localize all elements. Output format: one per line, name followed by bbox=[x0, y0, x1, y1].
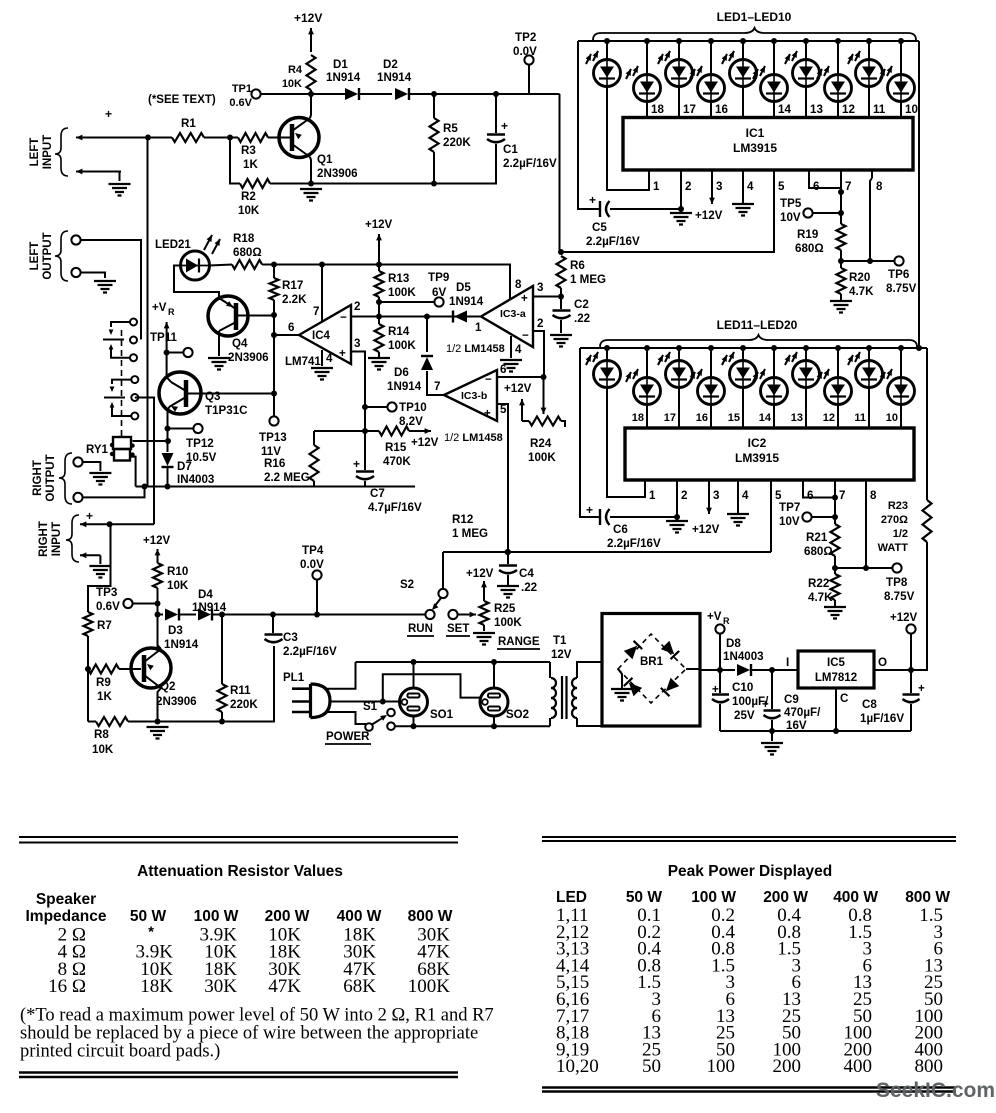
svg-text:7: 7 bbox=[845, 180, 851, 193]
svg-text:BR1: BR1 bbox=[640, 656, 664, 668]
led column 1 bbox=[606, 348, 608, 361]
IC2 pin 3 stub bbox=[708, 480, 710, 488]
svg-text:C1: C1 bbox=[503, 143, 518, 156]
svg-text:18K: 18K bbox=[140, 976, 173, 997]
table 2 top double rule bbox=[542, 837, 956, 841]
svg-text:R5: R5 bbox=[443, 122, 458, 135]
svg-text:16 Ω: 16 Ω bbox=[48, 976, 86, 997]
svg-text:50: 50 bbox=[642, 1056, 661, 1077]
wire IC1 pin7 column bbox=[840, 178, 842, 224]
svg-text:R4: R4 bbox=[288, 64, 303, 76]
svg-text:3: 3 bbox=[354, 337, 361, 350]
bottom ground line of supply bbox=[720, 730, 911, 732]
wire BR1 output bbox=[686, 669, 735, 670]
wire IC1 pin4 ground bbox=[742, 178, 744, 203]
wire TP11 to +VR line bbox=[167, 352, 184, 354]
wire +VR line to Q3 collector bbox=[167, 353, 171, 383]
svg-text:C3: C3 bbox=[283, 631, 298, 644]
wire R11 bottom bbox=[221, 712, 223, 722]
svg-text:Peak Power Displayed: Peak Power Displayed bbox=[668, 863, 833, 880]
svg-text:10V: 10V bbox=[780, 211, 801, 224]
svg-text:8.75V: 8.75V bbox=[884, 590, 915, 603]
relay contact circle 5 (common) bbox=[131, 394, 138, 401]
relay contact arrow up 2 bbox=[111, 407, 113, 409]
svg-text:1/2 LM1458: 1/2 LM1458 bbox=[446, 343, 505, 355]
wire IC3-b pin6 bbox=[497, 376, 544, 378]
svg-text:R20: R20 bbox=[849, 271, 870, 284]
wire D1-D2 bbox=[359, 93, 392, 95]
svg-text:OUTPUT: OUTPUT bbox=[42, 232, 54, 279]
svg-text:+: + bbox=[484, 407, 491, 420]
svg-text:18: 18 bbox=[651, 103, 664, 116]
svg-text:+: + bbox=[501, 119, 508, 133]
wire left output lower to ground bbox=[80, 273, 105, 279]
test point TP6 bbox=[894, 256, 903, 265]
wire plug bottom to S1 bbox=[327, 712, 366, 724]
svg-text:R23: R23 bbox=[888, 500, 908, 512]
svg-text:TP10: TP10 bbox=[399, 401, 427, 414]
left output terminal lower bbox=[71, 268, 80, 277]
switch S2 bbox=[442, 552, 444, 589]
svg-text:1N914: 1N914 bbox=[377, 71, 412, 84]
ic IC2 LM3915 box bbox=[625, 428, 914, 480]
svg-text:(*To read a maximum power leve: (*To read a maximum power level of 50 W … bbox=[20, 1006, 494, 1026]
wire C5 to pin2 ground bbox=[610, 208, 681, 210]
resistor R6 1 MEG bbox=[560, 94, 562, 252]
svg-text:3: 3 bbox=[537, 281, 544, 294]
diode D3 1N914 bbox=[158, 614, 164, 616]
resistor R8 10K bbox=[96, 717, 128, 726]
svg-text:800 W: 800 W bbox=[905, 889, 950, 906]
resistor R15 470K with +12V arrow bbox=[379, 427, 409, 436]
wire R8 to C3 bottom bbox=[128, 646, 274, 722]
svg-text:200 W: 200 W bbox=[265, 908, 310, 925]
svg-text:2: 2 bbox=[685, 180, 691, 193]
svg-text:220K: 220K bbox=[443, 136, 471, 149]
wire plug-mid branch to SO2 feed bbox=[383, 674, 480, 701]
svg-text:2: 2 bbox=[354, 300, 360, 313]
svg-text:4: 4 bbox=[326, 352, 333, 365]
svg-text:25V: 25V bbox=[734, 709, 755, 722]
wire Q3 base line bbox=[186, 393, 275, 395]
svg-text:4.7µF/16V: 4.7µF/16V bbox=[368, 501, 422, 514]
ground inside BR1 bbox=[618, 669, 622, 688]
svg-text:11: 11 bbox=[873, 103, 886, 116]
svg-text:INPUT: INPUT bbox=[42, 135, 54, 170]
svg-text:10K: 10K bbox=[282, 78, 302, 90]
svg-text:RUN: RUN bbox=[408, 623, 433, 635]
left output brace bbox=[55, 231, 68, 281]
wire R17 bottom to Q4 base node bbox=[273, 300, 275, 315]
resistor R1 bbox=[172, 133, 204, 142]
svg-text:10V: 10V bbox=[779, 515, 800, 528]
svg-text:D6: D6 bbox=[394, 366, 409, 379]
test point TP12 bbox=[193, 424, 202, 433]
svg-text:680Ω: 680Ω bbox=[804, 545, 833, 558]
wire IC1 pin2 ground bbox=[680, 178, 682, 212]
svg-text:+12V: +12V bbox=[890, 612, 918, 624]
wire right output lower bbox=[82, 487, 145, 498]
transistor Q1 2N3906 bbox=[279, 118, 319, 158]
wire IC3-b pin5 node to S2 and C4 bbox=[443, 551, 771, 553]
wire +12V arrow to R13 bbox=[378, 234, 380, 265]
svg-text:1: 1 bbox=[475, 321, 482, 334]
svg-text:3: 3 bbox=[713, 489, 720, 502]
resistor R11 220K bbox=[218, 684, 227, 712]
wire R2 node down bbox=[230, 138, 240, 184]
wire IC2 pin1 to LED11 cathode bbox=[607, 388, 645, 498]
wire node to TP6 bbox=[841, 260, 895, 262]
svg-text:2.2K: 2.2K bbox=[282, 293, 307, 306]
wire IC3-a pin2 feedback bbox=[533, 331, 544, 377]
svg-text:R17: R17 bbox=[282, 279, 303, 292]
resistor R20 4.7K bbox=[837, 268, 846, 294]
svg-text:+: + bbox=[86, 509, 93, 523]
wire IC1 pin5 signal to R6 node bbox=[561, 178, 774, 252]
svg-text:400 W: 400 W bbox=[337, 908, 382, 925]
svg-text:TP7: TP7 bbox=[779, 501, 800, 514]
relay contact circle 4 bbox=[131, 376, 138, 383]
bridge BR1 dashed diamond bbox=[618, 634, 686, 703]
svg-text:TP1: TP1 bbox=[232, 83, 252, 95]
svg-text:TP11: TP11 bbox=[150, 332, 177, 344]
svg-text:+12V: +12V bbox=[692, 523, 720, 536]
svg-text:13: 13 bbox=[810, 103, 823, 116]
svg-text:+: + bbox=[589, 193, 596, 207]
svg-text:1K: 1K bbox=[97, 690, 112, 703]
svg-text:1N914: 1N914 bbox=[164, 638, 199, 651]
IC2 pin 6 stub bbox=[802, 480, 804, 488]
svg-text:14: 14 bbox=[778, 103, 791, 116]
svg-text:6: 6 bbox=[807, 489, 814, 502]
svg-text:D7: D7 bbox=[177, 460, 192, 473]
test point TP3 bbox=[123, 599, 132, 608]
T1 core bbox=[562, 676, 567, 719]
svg-text:+12V: +12V bbox=[695, 209, 723, 222]
svg-text:TP2: TP2 bbox=[515, 31, 536, 44]
svg-text:15: 15 bbox=[728, 412, 740, 424]
relay contact circle 6 bbox=[131, 413, 138, 420]
svg-text:C6: C6 bbox=[613, 523, 628, 536]
wire R23 down to +12V line bbox=[915, 542, 927, 670]
svg-text:100K: 100K bbox=[388, 339, 416, 352]
svg-text:Speaker: Speaker bbox=[36, 891, 96, 908]
svg-text:10K: 10K bbox=[167, 579, 189, 592]
wire main node line to IC3-a pin8 bbox=[274, 265, 510, 300]
capacitor C5 2.2uF/16V bbox=[578, 41, 599, 209]
svg-text:6: 6 bbox=[288, 321, 295, 334]
wire plug middle to SO1 bbox=[330, 701, 400, 703]
svg-text:1/2 LM1458: 1/2 LM1458 bbox=[444, 432, 503, 444]
table 1 bottom double rule bbox=[19, 1073, 458, 1078]
svg-text:400 W: 400 W bbox=[833, 889, 878, 906]
svg-text:R6: R6 bbox=[570, 259, 585, 272]
diode D2 1N914 bbox=[395, 88, 408, 100]
svg-text:Attenuation Resistor Values: Attenuation Resistor Values bbox=[137, 863, 343, 880]
wire TP1 to Q1 collector node bbox=[260, 93, 345, 95]
svg-text:1 MEG: 1 MEG bbox=[570, 273, 606, 286]
svg-text:PL1: PL1 bbox=[283, 672, 305, 684]
wire R9 to Q2 base bbox=[119, 668, 141, 670]
wire Q4 base to node bbox=[236, 315, 274, 317]
svg-text:+: + bbox=[918, 682, 925, 695]
table 1 top double rule bbox=[19, 837, 458, 843]
wire R5 bottom bbox=[433, 152, 435, 184]
capacitor C10 100uF/25V bbox=[719, 670, 721, 693]
wire T1 primary bottom bbox=[549, 718, 551, 726]
wire IC5 common pin bbox=[835, 688, 837, 731]
svg-text:Impedance: Impedance bbox=[26, 908, 107, 925]
wire to C1 bottom bbox=[434, 144, 496, 184]
svg-text:1/2: 1/2 bbox=[893, 528, 908, 540]
socket SO2 bbox=[480, 688, 508, 716]
svg-text:2N3906: 2N3906 bbox=[228, 351, 269, 364]
wire left input long vertical bbox=[147, 138, 149, 487]
svg-text:TP12: TP12 bbox=[186, 437, 214, 450]
wire AC top to T1 primary bbox=[549, 662, 551, 678]
capacitor C6 2.2uF/16V bbox=[580, 348, 599, 517]
svg-text:−: − bbox=[485, 373, 492, 386]
bridge diode bottom-left bbox=[624, 678, 642, 696]
svg-text:100: 100 bbox=[707, 1056, 736, 1077]
svg-text:(*SEE TEXT): (*SEE TEXT) bbox=[148, 94, 216, 106]
svg-text:100K: 100K bbox=[494, 616, 522, 629]
svg-text:C2: C2 bbox=[574, 298, 589, 311]
svg-text:13: 13 bbox=[791, 412, 803, 424]
svg-text:100K: 100K bbox=[528, 451, 556, 464]
svg-text:1N914: 1N914 bbox=[326, 71, 361, 84]
wire LED21 to R18 bbox=[210, 265, 233, 266]
svg-text:R: R bbox=[168, 307, 175, 317]
svg-text:LEFT: LEFT bbox=[29, 138, 41, 167]
bridge BR1 box bbox=[602, 614, 700, 727]
svg-text:2.2µF/16V: 2.2µF/16V bbox=[586, 235, 640, 248]
svg-text:+12V: +12V bbox=[365, 219, 393, 231]
svg-text:C7: C7 bbox=[370, 487, 385, 500]
plug prongs bbox=[292, 689, 311, 712]
resistor R2 10K bbox=[240, 179, 270, 188]
wire R24 +12V arrow bbox=[522, 420, 529, 422]
wire R19 to R20 node bbox=[840, 250, 842, 268]
wire T1 secondary to BR1 bbox=[577, 662, 602, 678]
wire IC2 pin2 ground bbox=[676, 488, 678, 520]
relay contact circle 3 bbox=[130, 354, 137, 361]
svg-text:1: 1 bbox=[653, 180, 660, 193]
resistor R22 4.7K bbox=[831, 574, 840, 600]
wire C6 to pin2 ground bbox=[610, 516, 677, 518]
svg-text:12: 12 bbox=[823, 412, 835, 424]
svg-text:R18: R18 bbox=[233, 232, 255, 245]
wire S1 to SO bottoms bbox=[395, 725, 550, 727]
led column 6 bbox=[773, 348, 775, 378]
led column 1 bbox=[606, 41, 608, 60]
wire relay coil top to Q3 emitter line bbox=[133, 440, 169, 442]
svg-text:2N3906: 2N3906 bbox=[317, 167, 358, 180]
svg-text:T1P31C: T1P31C bbox=[205, 404, 248, 417]
svg-text:O: O bbox=[878, 656, 887, 669]
svg-text:R22: R22 bbox=[808, 577, 829, 590]
svg-text:16: 16 bbox=[715, 103, 728, 116]
svg-text:+: + bbox=[105, 107, 112, 121]
IC1 pin 3 stub bbox=[711, 170, 713, 178]
wire IC4 pin3 line bbox=[351, 352, 365, 432]
wire node to TP8 bbox=[835, 567, 893, 569]
svg-text:LED11–LED20: LED11–LED20 bbox=[717, 318, 798, 332]
wire IC4 pin6 output bbox=[274, 334, 299, 336]
wire +12V to R4 bbox=[310, 28, 312, 52]
svg-text:LM7812: LM7812 bbox=[815, 672, 857, 684]
relay coil RY1 bbox=[113, 437, 131, 449]
transistor Q3 T1P31C bbox=[159, 372, 201, 414]
svg-text:S2: S2 bbox=[400, 579, 414, 591]
bridge diode top-right bbox=[661, 641, 679, 659]
svg-text:LM741: LM741 bbox=[285, 356, 321, 368]
wire LED21 to Q4 emitter bbox=[174, 266, 219, 299]
svg-text:D4: D4 bbox=[198, 588, 213, 601]
svg-text:1N914: 1N914 bbox=[387, 380, 422, 393]
brace LED11-LED20 bbox=[600, 335, 917, 347]
svg-text:4.7K: 4.7K bbox=[849, 285, 874, 298]
svg-text:+V: +V bbox=[152, 302, 167, 314]
wire TP2 stub bbox=[528, 64, 530, 94]
led column 10 bbox=[900, 348, 902, 378]
wire R2 to Q1 ground bbox=[270, 183, 434, 185]
IC1 pin 2 stub bbox=[680, 170, 682, 178]
test point TP5 bbox=[803, 208, 812, 217]
potentiometer R24 100K bbox=[543, 377, 545, 414]
svg-text:R24: R24 bbox=[530, 437, 552, 450]
wire IC4 pin7 bbox=[321, 265, 323, 322]
svg-text:SET: SET bbox=[447, 623, 469, 635]
svg-text:+12V: +12V bbox=[504, 382, 532, 395]
ground under R20 bbox=[840, 294, 842, 300]
svg-text:IC1: IC1 bbox=[746, 126, 765, 140]
svg-text:R16: R16 bbox=[264, 457, 286, 470]
svg-text:TP6: TP6 bbox=[888, 268, 910, 281]
IC2 pin 5 stub bbox=[770, 480, 772, 488]
led column 2 bbox=[646, 348, 648, 378]
IC1 pin 8 stub bbox=[871, 170, 873, 178]
led column 2 bbox=[646, 41, 648, 75]
svg-text:TP9: TP9 bbox=[428, 271, 450, 284]
svg-text:8: 8 bbox=[870, 489, 877, 502]
wire right output upper to ground bbox=[82, 462, 100, 471]
svg-text:+: + bbox=[712, 683, 719, 696]
resistor R13 100K bbox=[378, 265, 380, 272]
svg-text:6V: 6V bbox=[432, 286, 446, 299]
svg-text:2N3906: 2N3906 bbox=[156, 695, 197, 708]
wire relay common 5 down to right input node bbox=[135, 398, 154, 525]
wire IC2 pin3 +12V arrow bbox=[708, 488, 710, 514]
svg-text:220K: 220K bbox=[230, 698, 258, 711]
relay actuation dashed link bbox=[121, 330, 123, 436]
svg-text:LED21: LED21 bbox=[155, 239, 191, 251]
svg-text:TP8: TP8 bbox=[886, 576, 908, 589]
svg-text:I: I bbox=[786, 656, 789, 669]
ground under Q2 bbox=[147, 727, 169, 739]
wire D8 to IC5 input bbox=[751, 669, 798, 671]
svg-text:LEFT: LEFT bbox=[29, 242, 41, 271]
op-amp IC4 LM741 bbox=[299, 305, 351, 364]
wire Q2 emitter up / collector down bbox=[158, 615, 162, 650]
wire SO2 stubs bbox=[493, 662, 495, 688]
wire IC2 pin6 jog bbox=[803, 488, 835, 498]
left input ground bbox=[119, 172, 121, 182]
resistor R10 10K bbox=[153, 563, 162, 588]
svg-text:IC4: IC4 bbox=[312, 330, 331, 342]
svg-text:18: 18 bbox=[632, 412, 644, 424]
svg-text:D5: D5 bbox=[456, 281, 471, 294]
svg-text:R13: R13 bbox=[388, 272, 410, 285]
svg-text:R19: R19 bbox=[797, 228, 819, 241]
svg-text:+12V: +12V bbox=[294, 11, 322, 25]
test point TP8 bbox=[892, 563, 901, 572]
right input brace bbox=[66, 515, 79, 562]
relay lever upper bbox=[103, 339, 124, 341]
svg-text:0.6V: 0.6V bbox=[229, 97, 252, 109]
led column 7 bbox=[805, 41, 807, 60]
svg-text:4: 4 bbox=[742, 489, 749, 502]
led column 6 bbox=[773, 41, 775, 75]
svg-text:10,20: 10,20 bbox=[556, 1056, 599, 1077]
led anode rail (IC2) bbox=[580, 347, 927, 349]
IC1 pin 6 stub bbox=[808, 170, 810, 178]
resistor R17 2.2K bbox=[273, 265, 275, 279]
svg-text:470µF/: 470µF/ bbox=[784, 706, 821, 719]
svg-text:2: 2 bbox=[537, 317, 543, 330]
svg-text:R15: R15 bbox=[385, 441, 407, 454]
svg-text:R21: R21 bbox=[806, 531, 828, 544]
wire R3 to Q1 base bbox=[268, 137, 291, 139]
test point TP7 bbox=[802, 512, 811, 521]
resistor R5 220K bbox=[433, 94, 435, 118]
test point TP10 bbox=[387, 402, 396, 411]
resistor R16 2.2 MEG bbox=[313, 431, 315, 445]
svg-text:D2: D2 bbox=[383, 58, 398, 71]
T1 primary coil bbox=[551, 678, 556, 718]
wire IC4 pin4 ground bbox=[321, 350, 323, 366]
wire IC2 pin7 column bbox=[834, 488, 836, 524]
wire R7 to R9 node bbox=[87, 636, 89, 722]
svg-text:OUTPUT: OUTPUT bbox=[45, 454, 57, 501]
potentiometer R25 100K bbox=[480, 601, 489, 625]
svg-text:+V: +V bbox=[707, 611, 722, 623]
led column 9 bbox=[868, 348, 870, 361]
svg-text:−: − bbox=[340, 311, 347, 324]
IC1 pin 1 stub bbox=[648, 170, 650, 178]
svg-text:T1: T1 bbox=[553, 635, 567, 647]
svg-text:1µF/16V: 1µF/16V bbox=[860, 712, 904, 725]
resistor R9 1K bbox=[88, 665, 119, 674]
wire IC1 pin8 column bbox=[870, 178, 872, 261]
svg-text:12V: 12V bbox=[551, 649, 572, 661]
svg-text:D3: D3 bbox=[168, 624, 183, 637]
wire R24 right stub bbox=[561, 421, 565, 427]
svg-text:1N914: 1N914 bbox=[449, 295, 484, 308]
wire IC1 pin6 jog to pin7 column bbox=[809, 178, 841, 188]
relay contact circle 1 bbox=[130, 319, 137, 326]
svg-text:RY1: RY1 bbox=[86, 444, 109, 456]
ground under C9 bbox=[771, 731, 773, 741]
svg-text:0.0V: 0.0V bbox=[513, 45, 537, 58]
svg-text:R9: R9 bbox=[96, 676, 111, 689]
wire IC2 pin8 column bbox=[865, 488, 867, 568]
wire R13 to TP9 node bbox=[378, 297, 380, 317]
bridge diode top-left bbox=[624, 641, 642, 659]
test point TP1 bbox=[251, 89, 260, 98]
svg-text:R25: R25 bbox=[494, 602, 516, 615]
resistor R4 bbox=[307, 55, 316, 90]
